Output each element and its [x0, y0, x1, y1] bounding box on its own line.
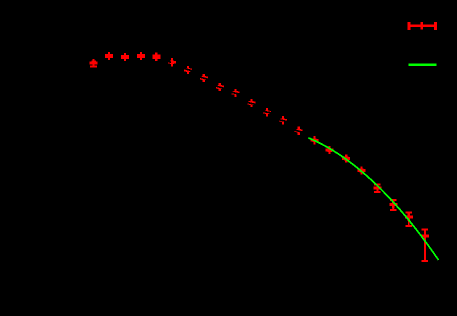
data point P2 with error bar	[105, 52, 113, 60]
black trend-line dashes overdrawing points (invisible on background)	[166, 61, 171, 63]
data point P21 with error bar	[405, 212, 413, 227]
data point P19 with error bar	[373, 184, 381, 193]
data point P4 with error bar	[137, 52, 145, 60]
data point P10 with error bar	[232, 89, 240, 97]
data point P12 with error bar	[263, 108, 271, 116]
data point P15 with error bar	[311, 136, 319, 144]
green fit curve f(x)	[308, 138, 438, 260]
data point P14 with error bar	[295, 127, 303, 135]
data point P1 with error bar	[90, 59, 98, 68]
data point P16 with error bar	[326, 146, 334, 154]
data point P3 with error bar	[121, 53, 129, 61]
data point P20 with error bar	[389, 199, 397, 211]
data point P8 with error bar	[200, 74, 208, 82]
data point P7 with error bar	[184, 66, 192, 74]
data point P11 with error bar	[247, 99, 255, 107]
data point P9 with error bar	[216, 83, 224, 91]
legend errorbar sample (red)	[408, 22, 437, 30]
data point P13 with error bar	[279, 116, 287, 124]
data point P5 with error bar	[152, 53, 160, 61]
data point P17 with error bar	[342, 154, 350, 162]
legend fit-line sample (green)	[408, 63, 436, 66]
data point P22 with error bar	[421, 229, 429, 263]
data point P6 with error bar	[168, 58, 176, 66]
data point P18 with error bar	[358, 166, 366, 174]
